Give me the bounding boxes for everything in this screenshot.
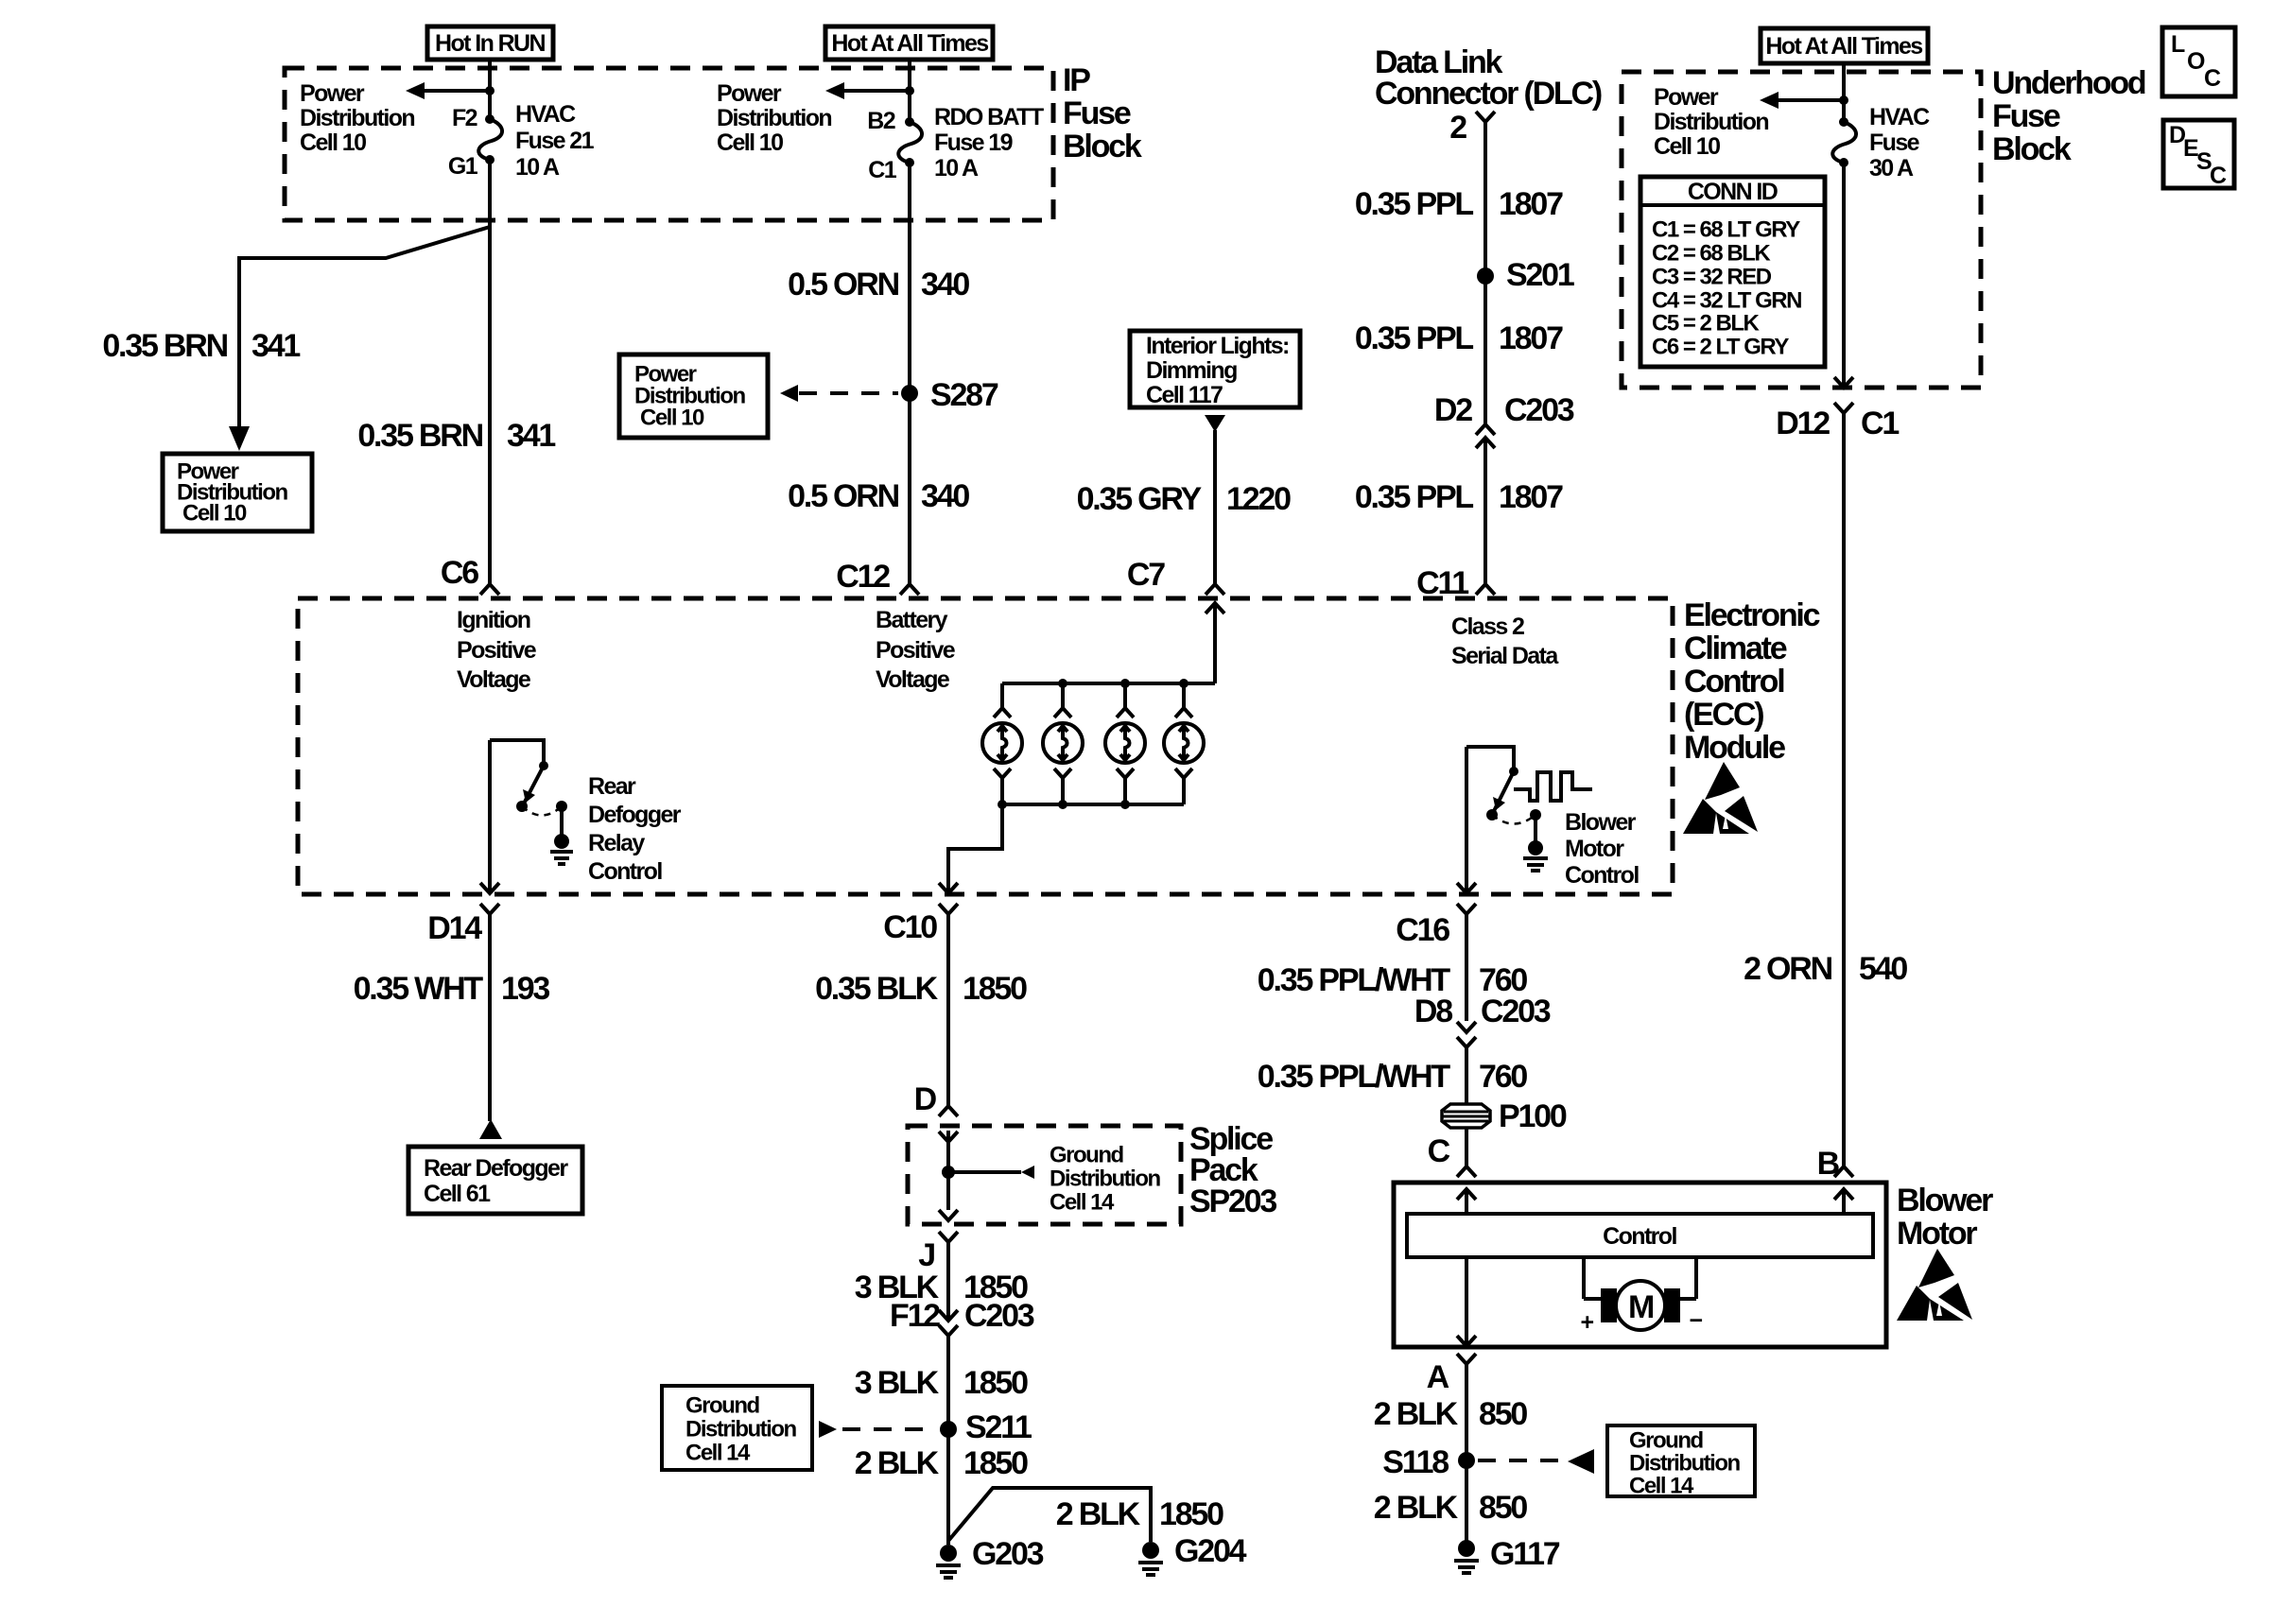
box Power Distribution Cell 10 (middle) — [619, 354, 768, 438]
pass-through grommet P100 — [1442, 1098, 1567, 1134]
label Power Distribution Cell 10 (IP left) — [300, 80, 414, 156]
wire 1850 from C10 to D — [946, 924, 950, 1106]
svg-text:Motor: Motor — [1565, 836, 1624, 862]
svg-text:540: 540 — [1859, 951, 1907, 987]
flag box Hot In RUN — [427, 26, 553, 60]
splice pack junction — [942, 1142, 955, 1210]
svg-text:Hot At All Times: Hot At All Times — [1765, 33, 1922, 60]
svg-text:C203: C203 — [1504, 392, 1574, 428]
svg-text:RDO BATT: RDO BATT — [934, 104, 1044, 130]
wire label 0.35 PPL 1807 (lower) — [1355, 479, 1563, 515]
reference arrow to Ground Distribution Cell 14 (splice pack) — [948, 1166, 1034, 1179]
svg-text:G203: G203 — [972, 1536, 1044, 1572]
wire label 2 BLK 1850 (branch) — [1056, 1496, 1223, 1532]
pin B2 — [867, 108, 894, 134]
svg-text:850: 850 — [1479, 1490, 1527, 1526]
ESD symbol (blower) — [1897, 1249, 1972, 1321]
dashed reference arrow from Ground Distribution to S211 — [819, 1421, 936, 1438]
wire relay output to D14 — [480, 740, 499, 893]
wire 760 from C16 to D8 — [1465, 924, 1468, 1021]
wire motor to pin A — [1457, 1257, 1476, 1346]
svg-text:0.5 ORN: 0.5 ORN — [788, 478, 899, 514]
wire label 3 BLK 1850 (upper) — [855, 1270, 1028, 1305]
svg-text:Blower: Blower — [1565, 809, 1637, 836]
svg-text:C7: C7 — [1127, 557, 1165, 593]
arrow to Power Distribution Cell 10 (middle) — [825, 82, 914, 99]
relay coil ground dot — [556, 801, 567, 836]
svg-text:Power: Power — [300, 80, 365, 107]
box Interior Lights: Dimming Cell 117 — [1130, 331, 1300, 408]
svg-text:CONN ID: CONN ID — [1688, 179, 1778, 205]
svg-text:0.35 BLK: 0.35 BLK — [815, 971, 939, 1007]
connector C203 label (bottom) — [964, 1298, 1034, 1334]
svg-text:Cell 10: Cell 10 — [640, 406, 704, 431]
wire branch to G204 — [948, 1488, 1151, 1542]
svg-text:10 A: 10 A — [515, 154, 560, 181]
svg-text:Ground: Ground — [1629, 1428, 1703, 1454]
label Battery Positive Voltage — [876, 607, 956, 693]
svg-text:G117: G117 — [1490, 1536, 1560, 1572]
svg-text:D12: D12 — [1776, 406, 1830, 441]
lamp top bus — [1002, 679, 1215, 688]
pin C10 — [883, 909, 937, 945]
ESD symbol (ECC) — [1683, 762, 1758, 834]
svg-text:193: 193 — [501, 971, 549, 1007]
wire 193 to Rear Defogger — [488, 924, 492, 1121]
svg-text:Cell 14: Cell 14 — [1050, 1190, 1115, 1216]
blower control dashed actuator arc — [1492, 815, 1536, 824]
svg-text:C1 = 68 LT GRY: C1 = 68 LT GRY — [1652, 217, 1800, 243]
svg-text:S201: S201 — [1506, 257, 1574, 293]
svg-text:Cell 14: Cell 14 — [1629, 1474, 1694, 1499]
connector J chevron — [939, 1232, 958, 1253]
dashed reference arrow to Ground Distribution Cell 14 (right) — [1478, 1449, 1594, 1474]
svg-text:3 BLK: 3 BLK — [855, 1365, 940, 1401]
svg-text:Electronic: Electronic — [1684, 597, 1820, 633]
box Ground Distribution Cell 14 (right) — [1607, 1425, 1755, 1499]
svg-text:L: L — [2171, 31, 2185, 58]
svg-text:1850: 1850 — [963, 1445, 1028, 1481]
connector B chevron — [1834, 1166, 1853, 1177]
svg-text:A: A — [1427, 1359, 1449, 1395]
svg-text:D: D — [914, 1081, 937, 1117]
svg-text:0.35 WHT: 0.35 WHT — [354, 971, 484, 1007]
svg-text:C6: C6 — [441, 555, 478, 591]
svg-text:Underhood: Underhood — [1992, 65, 2145, 101]
svg-text:Power: Power — [717, 80, 782, 107]
connector D14 chevron — [480, 904, 499, 924]
wire label 3 BLK 1850 (lower) — [855, 1365, 1028, 1401]
blower motor box — [1394, 1183, 1886, 1347]
wire 1850 from J to F12 — [946, 1253, 950, 1321]
svg-text:1850: 1850 — [963, 1365, 1028, 1401]
wire from Hot In RUN into fuse block — [488, 60, 492, 119]
svg-text:Fuse 21: Fuse 21 — [515, 128, 595, 154]
svg-text:Distribution: Distribution — [1654, 109, 1768, 135]
relay switch blade with arrow — [523, 766, 544, 803]
connector C10 chevron — [939, 904, 958, 924]
box Rear Defogger Cell 61 — [408, 1147, 582, 1214]
svg-text:Serial Data: Serial Data — [1451, 643, 1559, 669]
connector C11 chevron — [1476, 584, 1495, 595]
svg-text:341: 341 — [252, 328, 300, 364]
svg-text:C3 = 32 RED: C3 = 32 RED — [1652, 265, 1772, 290]
svg-text:1220: 1220 — [1226, 481, 1291, 517]
arrow to Power Distribution Cell 10 (underhood) — [1760, 92, 1848, 109]
splice S201 — [1477, 257, 1574, 293]
pin D14 — [427, 910, 482, 946]
svg-text:Ground: Ground — [685, 1393, 759, 1419]
svg-text:G1: G1 — [448, 153, 478, 180]
svg-text:0.35 PPL: 0.35 PPL — [1355, 320, 1474, 356]
svg-text:Dimming: Dimming — [1146, 357, 1237, 384]
box Power Distribution Cell 10 (left) — [163, 454, 312, 531]
svg-text:Voltage: Voltage — [876, 666, 950, 693]
svg-text:Distribution: Distribution — [717, 105, 831, 131]
CONN ID table — [1640, 177, 1825, 367]
svg-text:C2 = 68 BLK: C2 = 68 BLK — [1652, 241, 1771, 267]
pin C16 — [1396, 912, 1449, 948]
svg-text:Fuse 19: Fuse 19 — [934, 130, 1013, 156]
backlight lamp 4 — [1164, 683, 1204, 804]
svg-text:0.35 PPL/WHT: 0.35 PPL/WHT — [1258, 1059, 1451, 1095]
svg-text:340: 340 — [921, 478, 969, 514]
wire label 0.5 ORN 340 (lower) — [788, 478, 969, 514]
svg-text:D8: D8 — [1414, 993, 1452, 1029]
svg-text:10 A: 10 A — [934, 155, 979, 181]
wire lamp bus to C10 — [939, 804, 1002, 893]
connector C203 label — [1504, 392, 1574, 428]
wire C7 to lamp bus — [1213, 603, 1217, 683]
svg-text:HVAC: HVAC — [515, 101, 576, 128]
svg-text:C203: C203 — [1481, 993, 1551, 1029]
svg-text:0.5 ORN: 0.5 ORN — [788, 267, 899, 302]
connector C6 chevron — [480, 584, 499, 595]
wire blower control to C16 — [1457, 747, 1476, 893]
box Ground Distribution Cell 14 (left) — [662, 1386, 812, 1470]
connector C7 chevron — [1206, 584, 1224, 595]
wire label 2 ORN 540 — [1744, 951, 1907, 987]
svg-text:Interior Lights:: Interior Lights: — [1146, 333, 1289, 359]
connector D2 C203 halves — [1476, 424, 1495, 448]
arrow up at pin C inside blower — [1457, 1189, 1476, 1214]
svg-text:D14: D14 — [427, 910, 482, 946]
dashed reference arrow to Power Distribution Cell 10 — [780, 385, 898, 402]
relay dashed actuator arc — [522, 806, 562, 816]
pin B — [1817, 1146, 1840, 1182]
svg-text:Module: Module — [1684, 730, 1785, 766]
blower control switch blade with arrow — [1493, 771, 1514, 811]
pin D — [914, 1081, 937, 1117]
lamp bottom bus — [998, 800, 1184, 809]
svg-text:Cell 10: Cell 10 — [717, 130, 783, 156]
wire label 0.35 WHT 193 — [354, 971, 550, 1007]
svg-text:Fuse: Fuse — [1992, 98, 2060, 134]
wire from Hot At All Times into underhood fuse block — [1842, 63, 1846, 122]
svg-text:340: 340 — [921, 267, 969, 302]
svg-text:C11: C11 — [1416, 565, 1468, 601]
svg-text:30 A: 30 A — [1869, 155, 1914, 181]
svg-text:Ignition: Ignition — [457, 607, 530, 633]
svg-text:850: 850 — [1479, 1396, 1527, 1432]
pin D12 — [1776, 406, 1830, 441]
label Blower Motor — [1897, 1183, 1993, 1252]
wire label 2 BLK 850 (lower) — [1374, 1490, 1528, 1526]
connector DLC pin 2 chevron — [1449, 110, 1495, 146]
wire 850 from A to S118 — [1465, 1374, 1468, 1548]
connector A chevron — [1457, 1354, 1476, 1374]
svg-text:Battery: Battery — [876, 607, 948, 633]
value label HVAC Fuse 21 10 A — [515, 101, 595, 181]
svg-text:2: 2 — [1449, 110, 1466, 146]
svg-text:Connector (DLC): Connector (DLC) — [1375, 76, 1602, 112]
underhood fuse block dashed box — [1622, 72, 1981, 388]
svg-text:Cell 61: Cell 61 — [424, 1181, 491, 1207]
backlight lamp 1 — [982, 683, 1022, 804]
svg-text:C: C — [1428, 1133, 1450, 1169]
connector C chevron — [1457, 1166, 1476, 1177]
label Blower Motor Control — [1565, 809, 1639, 889]
wire label 0.35 PPL 1807 (middle) — [1355, 320, 1563, 356]
svg-text:Motor: Motor — [1897, 1216, 1977, 1252]
arrow out of splice pack — [939, 1210, 958, 1220]
svg-text:Control: Control — [1565, 862, 1639, 889]
pin G1 — [448, 153, 478, 180]
svg-text:0.35 PPL: 0.35 PPL — [1355, 479, 1474, 515]
svg-text:Voltage: Voltage — [457, 666, 531, 693]
wire from G1 down to C6 — [488, 160, 492, 583]
relay switch contact dot — [539, 761, 548, 770]
label Electronic Climate Control (ECC) Module — [1684, 597, 1820, 766]
blower control ground dot — [1530, 809, 1541, 841]
svg-text:+: + — [1581, 1309, 1594, 1336]
svg-text:S211: S211 — [965, 1409, 1032, 1445]
pin C1 (ECC) — [1861, 406, 1899, 441]
splice S287 — [901, 377, 998, 413]
arrow out of Interior Lights box — [1205, 415, 1225, 432]
pin C12 — [836, 559, 890, 595]
wire label 0.35 BLK 1850 — [815, 971, 1027, 1007]
svg-text:C1: C1 — [868, 157, 896, 183]
label Power Distribution Cell 10 (IP middle) — [717, 80, 831, 156]
wire label 0.35 BRN 341 (branch) — [102, 328, 300, 364]
svg-text:341: 341 — [507, 418, 555, 454]
backlight lamp 3 — [1105, 683, 1145, 804]
wire label 0.35 PPL/WHT 760 (upper) — [1258, 962, 1528, 998]
arrow into splice pack — [939, 1131, 958, 1142]
connector C203 label (right) — [1481, 993, 1551, 1029]
svg-text:IP: IP — [1063, 62, 1090, 98]
relay switch throw dot — [516, 801, 528, 812]
svg-text:Cell 117: Cell 117 — [1146, 382, 1223, 408]
control box inside blower motor — [1407, 1214, 1873, 1257]
svg-text:2 BLK: 2 BLK — [1056, 1496, 1141, 1532]
svg-text:(ECC): (ECC) — [1684, 697, 1763, 733]
label Power Distribution Cell 10 (underhood) — [1654, 84, 1768, 160]
pin C (blower) — [1428, 1133, 1450, 1169]
svg-text:C6 = 2 LT GRY: C6 = 2 LT GRY — [1652, 335, 1789, 360]
pin D2 — [1434, 392, 1472, 428]
svg-text:P100: P100 — [1499, 1098, 1567, 1134]
svg-text:J: J — [918, 1237, 934, 1273]
connector D8 C203 halves — [1457, 1022, 1476, 1105]
svg-text:1807: 1807 — [1499, 479, 1563, 515]
svg-text:1850: 1850 — [963, 971, 1027, 1007]
svg-text:0.35 PPL: 0.35 PPL — [1355, 186, 1474, 222]
flag box Hot At All Times (IP) — [825, 26, 993, 60]
wire 1807 from S201 to D2 — [1484, 276, 1487, 424]
arrow to Power Distribution Cell 10 (left) — [406, 82, 495, 99]
svg-text:Class 2: Class 2 — [1451, 613, 1524, 640]
svg-text:C: C — [2204, 65, 2221, 92]
label Ignition Positive Voltage — [457, 607, 537, 693]
wire label 0.35 BRN 341 — [357, 418, 555, 454]
backlight lamp 2 — [1043, 683, 1083, 804]
svg-text:2 BLK: 2 BLK — [1374, 1396, 1459, 1432]
svg-text:Cell 10: Cell 10 — [182, 501, 247, 527]
svg-text:Rear Defogger: Rear Defogger — [424, 1155, 568, 1182]
label Underhood Fuse Block — [1992, 65, 2145, 167]
wire label 0.35 PPL/WHT 760 (lower) — [1258, 1059, 1528, 1095]
blower motor M — [1581, 1257, 1703, 1336]
wire 1807 from DLC to S201 — [1484, 122, 1487, 276]
svg-text:Cell 14: Cell 14 — [685, 1441, 751, 1466]
wire 540 from D12 down to pin B — [1842, 413, 1846, 1166]
svg-text:1807: 1807 — [1499, 186, 1563, 222]
svg-text:M: M — [1628, 1289, 1654, 1325]
wire from 30A fuse down to D12 — [1834, 163, 1853, 388]
ECC module dashed box — [298, 598, 1673, 894]
svg-text:0.35 BRN: 0.35 BRN — [357, 418, 482, 454]
LOC box — [2162, 27, 2235, 96]
svg-text:F12: F12 — [890, 1298, 940, 1334]
svg-text:C1: C1 — [1861, 406, 1899, 441]
svg-text:Fuse: Fuse — [1869, 130, 1920, 156]
svg-text:Power: Power — [1654, 84, 1719, 111]
svg-text:Cell 10: Cell 10 — [300, 130, 366, 156]
pin F12 — [890, 1298, 940, 1334]
connector F12 C203 halves — [939, 1310, 958, 1545]
svg-text:B2: B2 — [867, 108, 894, 134]
fuse F2 RDO BATT Fuse 19 10 A — [898, 117, 922, 167]
svg-text:Block: Block — [1063, 129, 1142, 164]
pin D8 — [1414, 993, 1452, 1029]
svg-text:2 ORN: 2 ORN — [1744, 951, 1832, 987]
svg-text:Distribution: Distribution — [1629, 1451, 1740, 1477]
ground G203 — [936, 1536, 1044, 1578]
connector C12 chevron — [900, 584, 919, 595]
label Rear Defogger Relay Control — [588, 773, 682, 885]
svg-text:C5 = 2 BLK: C5 = 2 BLK — [1652, 311, 1761, 337]
splice pack SP203 dashed box — [908, 1126, 1181, 1224]
wire 1807 from C203 to C11 — [1484, 438, 1487, 583]
svg-text:760: 760 — [1479, 1059, 1527, 1095]
wire 1220 from Interior Lights to C7 — [1213, 430, 1217, 583]
svg-text:Ground: Ground — [1050, 1143, 1123, 1168]
svg-text:2 BLK: 2 BLK — [1374, 1490, 1459, 1526]
svg-text:SP203: SP203 — [1189, 1183, 1276, 1219]
svg-text:C203: C203 — [964, 1298, 1034, 1334]
svg-text:S118: S118 — [1382, 1444, 1449, 1480]
label Splice Pack SP203 — [1189, 1121, 1276, 1219]
pin C7 — [1127, 557, 1165, 593]
svg-text:1807: 1807 — [1499, 320, 1563, 356]
wire label 0.35 GRY 1220 — [1077, 481, 1292, 517]
DESC box — [2163, 120, 2234, 189]
svg-text:O: O — [2187, 48, 2205, 75]
label IP Fuse Block — [1063, 62, 1142, 164]
svg-text:C4 = 32 LT GRN: C4 = 32 LT GRN — [1652, 288, 1801, 314]
splice S118 — [1382, 1444, 1475, 1480]
ground (relay control) — [550, 834, 573, 864]
arrow up at pin B inside blower — [1834, 1189, 1853, 1214]
fuse F1 HVAC Fuse 21 10 A — [478, 114, 502, 164]
value label HVAC Fuse 30 A — [1869, 104, 1930, 181]
svg-text:Cell 10: Cell 10 — [1654, 133, 1720, 160]
svg-text:1850: 1850 — [1159, 1496, 1223, 1532]
svg-text:Positive: Positive — [457, 637, 537, 664]
label Class 2 Serial Data — [1451, 613, 1559, 669]
connector C16 chevron — [1457, 904, 1476, 924]
svg-text:D2: D2 — [1434, 392, 1472, 428]
svg-text:C12: C12 — [836, 559, 890, 595]
pin A — [1427, 1359, 1449, 1395]
svg-text:Defogger: Defogger — [588, 802, 682, 828]
svg-text:Hot In RUN: Hot In RUN — [435, 30, 545, 57]
blower motor control wire jog — [1466, 747, 1514, 771]
pin C11 — [1416, 565, 1468, 601]
svg-text:Rear: Rear — [588, 773, 636, 800]
svg-text:0.35 BRN: 0.35 BRN — [102, 328, 227, 364]
svg-text:0.35 GRY: 0.35 GRY — [1077, 481, 1203, 517]
svg-text:S287: S287 — [930, 377, 998, 413]
pin C6 — [441, 555, 478, 591]
wire P100 to blower motor pin C — [1465, 1127, 1468, 1166]
wire from C1 fuse down to C12 — [908, 163, 911, 583]
pin J — [918, 1237, 934, 1273]
wire label 0.35 PPL 1807 (top) — [1355, 186, 1563, 222]
connector D chevron — [939, 1106, 958, 1116]
svg-text:Control: Control — [1603, 1223, 1676, 1250]
svg-text:F2: F2 — [452, 105, 477, 131]
svg-text:Distribution: Distribution — [300, 105, 414, 131]
pin F2 — [452, 105, 477, 131]
svg-text:C10: C10 — [883, 909, 937, 945]
svg-text:HVAC: HVAC — [1869, 104, 1930, 130]
label Ground Distribution Cell 14 (splice pack) — [1050, 1143, 1160, 1216]
wire label 2 BLK 1850 — [855, 1445, 1028, 1481]
arrow up to C7 inside ECC — [1206, 603, 1224, 613]
ground (blower control) — [1523, 840, 1548, 871]
pin C1 — [868, 157, 896, 183]
wire label 0.5 ORN 340 (upper) — [788, 267, 969, 302]
ground G117 — [1454, 1536, 1560, 1573]
ground G204 — [1138, 1533, 1247, 1575]
svg-text:Block: Block — [1992, 131, 2072, 167]
fuse HVAC Fuse 30 A — [1832, 117, 1856, 167]
svg-text:G204: G204 — [1174, 1533, 1247, 1569]
IP fuse block dashed box — [285, 68, 1053, 220]
svg-text:C: C — [2210, 163, 2227, 189]
svg-text:Positive: Positive — [876, 637, 956, 664]
svg-text:−: − — [1690, 1307, 1703, 1334]
blower control switch throw dot — [1486, 809, 1498, 821]
wire label 2 BLK 850 (upper) — [1374, 1396, 1528, 1432]
svg-text:Relay: Relay — [588, 830, 645, 856]
title Data Link Connector (DLC) — [1375, 44, 1602, 112]
svg-text:Control: Control — [1684, 664, 1784, 700]
blower control switch contact dot — [1509, 767, 1518, 776]
